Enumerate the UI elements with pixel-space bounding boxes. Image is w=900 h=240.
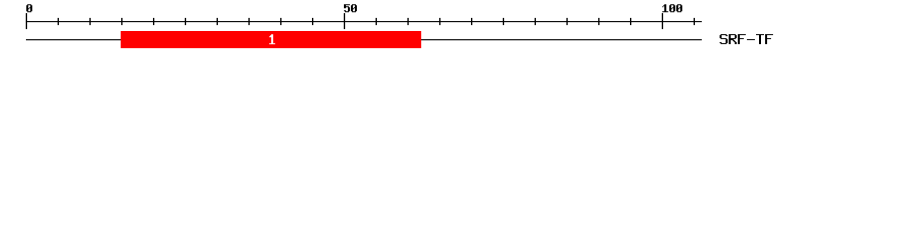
ruler label 50 [344, 4, 357, 12]
ruler minor tick 55 [376, 18, 377, 25]
motif block 1 (red) [121, 31, 422, 48]
ruler minor tick 105 [694, 18, 695, 25]
ruler major tick 0 [26, 13, 27, 29]
ruler minor tick 95 [630, 18, 631, 25]
ruler minor tick 5 [58, 18, 59, 25]
ruler minor tick 70 [471, 18, 472, 25]
ruler major tick 100 [662, 13, 663, 29]
ruler minor tick 80 [535, 18, 536, 25]
ruler minor tick 30 [217, 18, 218, 25]
ruler minor tick 45 [312, 18, 313, 25]
ruler label 100 [662, 4, 682, 12]
ruler minor tick 40 [280, 18, 281, 25]
ruler minor tick 65 [439, 18, 440, 25]
ruler minor tick 35 [248, 18, 249, 25]
ruler minor tick 10 [89, 18, 90, 25]
ruler minor tick 75 [503, 18, 504, 25]
motif number 1 [269, 34, 275, 44]
ruler minor tick 25 [185, 18, 186, 25]
sequence backbone line [26, 39, 702, 40]
ruler minor tick 85 [566, 18, 567, 25]
ruler minor tick 60 [407, 18, 408, 25]
motif name SRF-TF [720, 34, 774, 44]
ruler minor tick 20 [153, 18, 154, 25]
ruler axis line [26, 21, 702, 22]
ruler minor tick 15 [121, 18, 122, 25]
ruler major tick 50 [344, 13, 345, 29]
ruler label 0 [26, 4, 32, 12]
ruler minor tick 90 [598, 18, 599, 25]
